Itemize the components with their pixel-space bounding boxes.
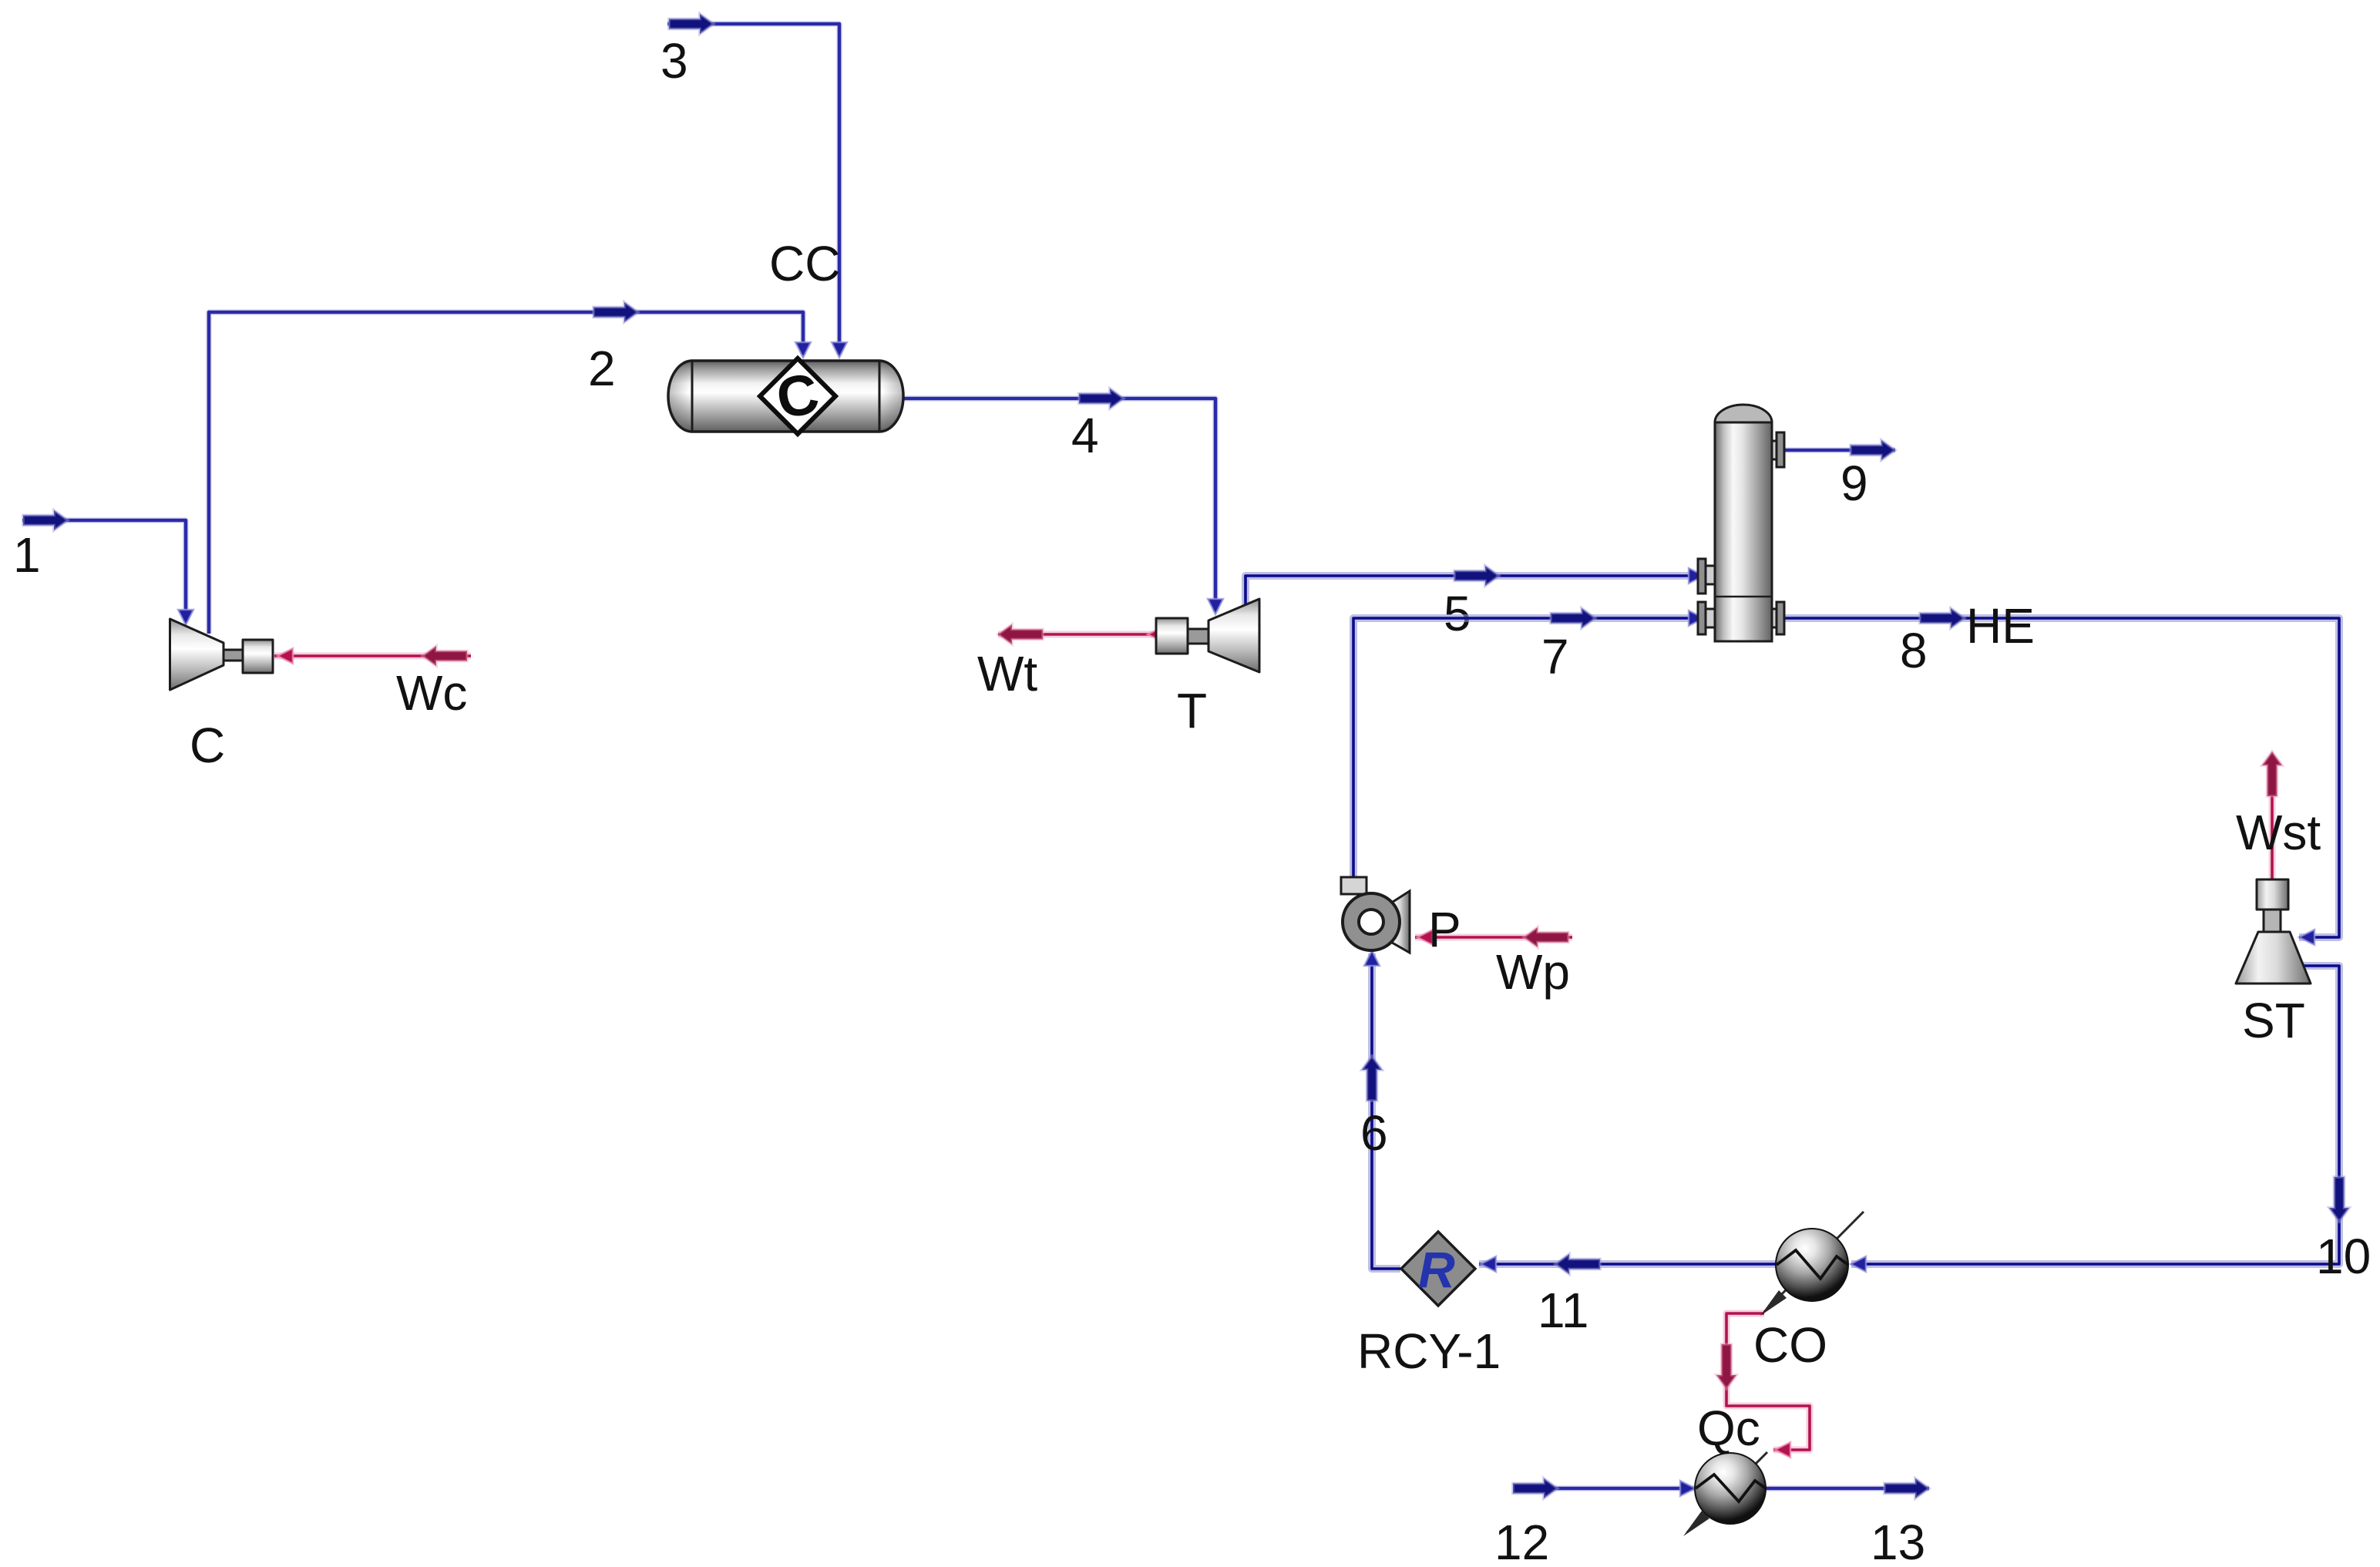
svg-text:1: 1 <box>13 527 41 583</box>
reactor vessel CC <box>668 358 903 434</box>
wire stream 9 <box>1783 447 1895 453</box>
condenser cooler (Qc sink) <box>1683 1452 1767 1536</box>
wire stream 2 <box>209 312 803 634</box>
connector arrow stream 6 into P <box>1364 950 1380 966</box>
connector arrow stream 12 into cooler <box>1680 1481 1696 1496</box>
flow arrow on stream 8 <box>1920 608 1965 628</box>
flow arrow on stream 7 <box>1551 608 1595 628</box>
wire stream 6 <box>1372 953 1400 1269</box>
wire stream 3 <box>667 24 839 355</box>
svg-text:C: C <box>190 718 225 773</box>
flow arrow on stream 11 <box>1555 1254 1600 1274</box>
svg-text:CC: CC <box>769 236 840 291</box>
wire stream 11 <box>1479 1260 1776 1268</box>
svg-text:HE: HE <box>1966 598 2035 654</box>
svg-text:9: 9 <box>1840 456 1868 511</box>
connector arrow stream 2 into CC <box>795 342 811 358</box>
flow arrow on stream 1 <box>23 510 68 530</box>
connector arrow stream 3 into CC <box>832 342 847 358</box>
svg-text:ST: ST <box>2242 993 2305 1048</box>
heat exchanger vessel HE <box>1698 405 1784 641</box>
svg-text:T: T <box>1177 683 1207 738</box>
flow arrow on stream 12 <box>1513 1478 1558 1498</box>
wire stream 7 <box>1353 618 1699 879</box>
connector arrow stream 5 into HE <box>1689 568 1704 583</box>
wire energy Wp <box>1415 934 1572 941</box>
connector arrow stream 7 into HE <box>1689 610 1704 626</box>
svg-text:8: 8 <box>1900 623 1928 678</box>
svg-text:2: 2 <box>588 341 616 396</box>
svg-text:Wst: Wst <box>2236 805 2321 860</box>
svg-text:5: 5 <box>1444 586 1471 641</box>
svg-text:12: 12 <box>1494 1515 1549 1567</box>
flow arrow on stream 2 <box>593 302 638 322</box>
wire stream 1 <box>22 520 186 621</box>
connector arrow stream 11 into RCY-1 <box>1481 1256 1496 1272</box>
connector arrow energy Wt from T <box>1148 627 1163 642</box>
svg-text:Wc: Wc <box>396 665 467 721</box>
wire stream 5 <box>1245 576 1698 606</box>
wire stream 4 <box>903 398 1215 611</box>
connector arrow energy Wp into P <box>1417 930 1433 945</box>
svg-text:6: 6 <box>1360 1105 1388 1161</box>
wire energy Wc <box>274 653 471 660</box>
svg-text:3: 3 <box>661 33 688 89</box>
svg-text:Qc: Qc <box>1697 1401 1760 1456</box>
flow arrow on energy Wc <box>422 646 467 666</box>
flow arrow on stream 3 <box>669 14 714 34</box>
flow arrow on stream 4 <box>1079 388 1124 409</box>
flow arrow on stream 10 <box>2329 1177 2349 1222</box>
wire stream 12 <box>1513 1485 1696 1491</box>
svg-text:R: R <box>1418 1241 1455 1298</box>
wire stream 13 <box>1764 1485 1929 1491</box>
steam turbine ST <box>2236 879 2311 984</box>
flow arrow on stream 6 <box>1362 1056 1382 1101</box>
svg-text:10: 10 <box>2316 1229 2371 1284</box>
svg-text:Wt: Wt <box>977 646 1037 701</box>
connector arrow energy Wc into C <box>277 648 293 664</box>
wire energy Wst <box>2269 771 2276 880</box>
pump P <box>1341 877 1410 953</box>
flow arrow on energy Wp <box>1524 927 1568 947</box>
flow arrow on energy Qc <box>1716 1344 1736 1389</box>
svg-text:11: 11 <box>1538 1283 1588 1338</box>
flow arrow on energy Wt <box>998 624 1043 644</box>
cooler CO <box>1760 1212 1864 1316</box>
wire stream 10 <box>1851 966 2339 1264</box>
connector arrow stream 10 into CO <box>1851 1256 1866 1272</box>
svg-text:4: 4 <box>1071 408 1099 463</box>
svg-text:Wp: Wp <box>1496 944 1570 1000</box>
svg-text:13: 13 <box>1871 1515 1925 1567</box>
turbine T <box>1156 599 1259 672</box>
connector arrow energy Qc into cooler <box>1775 1442 1790 1458</box>
svg-text:7: 7 <box>1541 629 1569 684</box>
flow arrow on stream 13 <box>1884 1478 1929 1498</box>
wire energy Qc <box>1726 1313 1810 1450</box>
recycle block RCY-1 <box>1401 1232 1475 1306</box>
flow arrow on stream 5 <box>1454 566 1499 586</box>
connector arrow stream 1 into C <box>178 610 193 625</box>
wire stream 8 <box>1783 618 2339 937</box>
wire energy Wt <box>998 631 1155 638</box>
svg-text:CO: CO <box>1753 1317 1827 1373</box>
svg-text:RCY-1: RCY-1 <box>1357 1323 1501 1379</box>
flow arrow on energy Wst <box>2262 752 2282 796</box>
connector arrow stream 4 into T <box>1208 599 1223 614</box>
compressor C <box>170 619 274 690</box>
flow arrow on stream 9 <box>1851 440 1895 460</box>
connector arrow stream 8 into ST <box>2299 930 2314 945</box>
svg-text:P: P <box>1428 902 1461 957</box>
